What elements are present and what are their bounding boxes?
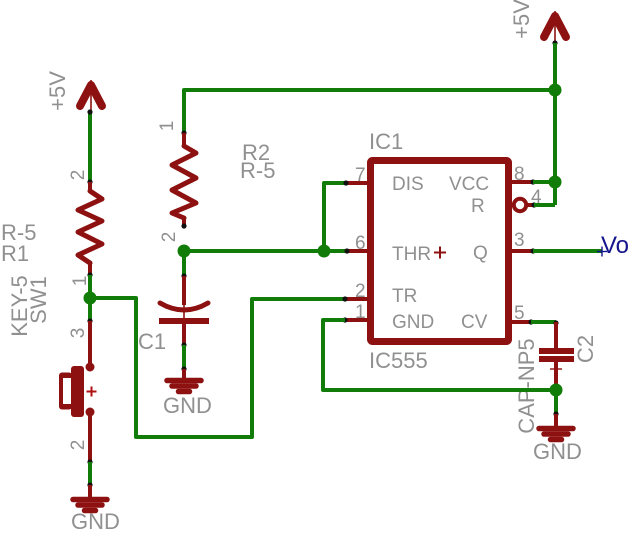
wire VCC drop to pin 8: [553, 43, 557, 205]
pin dot R2 pin2: [181, 223, 186, 228]
ground G1: [73, 485, 107, 511]
ground G2: [167, 369, 201, 392]
pin 1 GND stub: [346, 318, 367, 322]
svg-text:3: 3: [68, 328, 89, 339]
svg-text:2: 2: [68, 440, 89, 451]
svg-text:R1: R1: [1, 241, 29, 266]
THR plus mark: [434, 252, 446, 254]
capacitor C2: [539, 322, 574, 388]
wire node E to pin 4: [534, 203, 555, 207]
svg-text:5: 5: [514, 303, 525, 324]
svg-text:+5V: +5V: [509, 0, 534, 39]
pin 7 DIS stub: [346, 181, 367, 185]
svg-text:C1: C1: [138, 329, 166, 354]
wire node F to GND: [554, 390, 558, 414]
ground G3: [539, 414, 573, 440]
wire CV pin5 to C2: [531, 320, 556, 324]
svg-text:1: 1: [157, 121, 178, 132]
pin dot C2 pin1: [553, 320, 558, 325]
wire node E to pin 8: [533, 180, 555, 184]
pin dot GND G3: [553, 411, 558, 416]
svg-text:1: 1: [355, 302, 366, 323]
svg-text:IC1: IC1: [369, 129, 403, 154]
switch SW1: [59, 321, 97, 462]
svg-text:THR: THR: [392, 244, 431, 265]
pin dot SW1 pin2: [87, 459, 92, 464]
svg-text:TR: TR: [392, 286, 417, 307]
svg-text:2: 2: [355, 281, 366, 302]
op-amp U1: IC1 555 timer body: [371, 161, 509, 342]
svg-text:2: 2: [159, 232, 180, 243]
pin dot C2 pin2: [553, 385, 558, 390]
supply +5V P1 symbol: [80, 80, 102, 111]
pin dot GND G2: [181, 366, 186, 371]
pin 6 THR stub: [346, 249, 367, 253]
node Vo label cross: [597, 251, 607, 253]
wire +5V to R1: [88, 111, 92, 182]
pin 8 VCC stub: [512, 180, 533, 184]
svg-text:CV: CV: [461, 312, 488, 333]
svg-text:1: 1: [70, 276, 91, 287]
pin dot P2: [552, 40, 557, 45]
wire node B down to C1: [182, 251, 186, 276]
capacitor C1: [159, 276, 209, 345]
pin dot R1 pin2: [87, 179, 92, 184]
svg-text:GND: GND: [533, 439, 582, 464]
svg-text:2: 2: [68, 170, 89, 181]
wire node B to THR pin6: [184, 249, 347, 253]
svg-text:R-5: R-5: [240, 158, 275, 183]
node E junction (pin8 / pin4): [549, 176, 562, 189]
wire node C to DIS pin7: [324, 183, 347, 251]
resistor R1: [78, 182, 102, 275]
svg-text:3: 3: [514, 230, 525, 251]
svg-text:IC555: IC555: [369, 348, 428, 373]
supply +5V P2 symbol: [544, 11, 566, 42]
wire VCC top rail: [184, 43, 555, 133]
svg-text:DIS: DIS: [392, 174, 424, 195]
svg-text:CAP-NP5: CAP-NP5: [514, 338, 539, 433]
svg-text:GND: GND: [163, 393, 212, 418]
pin 3 Q stub: [512, 249, 533, 253]
pin 2 TR stub: [346, 297, 367, 301]
wire C1 to GND: [182, 345, 186, 369]
svg-text:7: 7: [355, 165, 366, 186]
svg-text:+5V: +5V: [45, 71, 70, 111]
wire SW1 to GND: [88, 462, 92, 485]
pin 4 R bubble: [514, 199, 526, 211]
svg-text:Vo: Vo: [601, 232, 629, 259]
pin dot P1: [87, 109, 92, 114]
wire node A to TR (pin2 net): [90, 298, 345, 437]
svg-text:SW1: SW1: [26, 276, 51, 324]
svg-text:Q: Q: [473, 243, 488, 264]
pin dot R2 pin1: [181, 130, 186, 135]
pin dot SW1 pin3: [87, 318, 92, 323]
node B junction (R2/THR/C1): [178, 245, 191, 258]
node C junction (THR/DIS branch): [318, 245, 331, 258]
wire Q output: [533, 249, 602, 253]
resistor R2: [172, 133, 196, 226]
node A junction: [84, 292, 97, 305]
svg-text:C2: C2: [573, 335, 598, 363]
svg-text:GND: GND: [71, 509, 120, 534]
pin dot GND G1: [87, 482, 92, 487]
pin dot C1 plus: [181, 273, 186, 278]
node F junction (C2/GND net): [550, 384, 563, 397]
svg-text:8: 8: [514, 164, 525, 185]
wire GND pin1 net to node F: [323, 320, 556, 390]
pin dot R1 pin1: [87, 272, 92, 277]
pin dot C1 minus: [181, 342, 186, 347]
svg-text:GND: GND: [392, 312, 434, 333]
svg-text:R: R: [471, 196, 485, 217]
node D junction (top rail / VCC drop): [549, 84, 562, 97]
pin 5 CV stub: [512, 320, 531, 324]
svg-text:6: 6: [355, 233, 366, 254]
svg-text:VCC: VCC: [449, 174, 489, 195]
wire R1 to node A: [88, 275, 92, 321]
